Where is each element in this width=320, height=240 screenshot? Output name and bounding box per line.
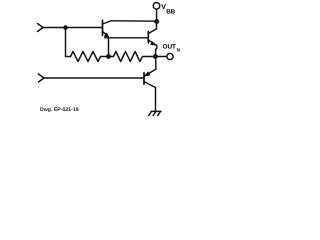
node: input1 / R1 junction (63, 25, 68, 30)
wire: R1/R2 node up to Q1 emitter rail (108, 38, 110, 57)
svg-text:OUT: OUT (163, 44, 176, 51)
wire: input 2 to Q3 base (44, 77, 144, 79)
label VBB (161, 4, 175, 15)
svg-text:N: N (177, 47, 181, 53)
input 1 arrow (top left) (38, 24, 44, 32)
OUT terminal (167, 53, 173, 59)
transistor Q1 (NPN) (103, 20, 112, 37)
transistor Q2 (NPN) (148, 21, 157, 56)
wire: input 1 to Q1 base (43, 27, 102, 29)
resistor R2 (109, 52, 156, 62)
svg-text:BB: BB (166, 8, 175, 15)
svg-text:Dwg. EP-021-19: Dwg. EP-021-19 (40, 107, 79, 113)
label OUT_N (163, 44, 181, 54)
resistor R1 (71, 52, 109, 62)
input 2 arrow (lower left) (39, 74, 45, 82)
transistor Q3 (PNP) (144, 57, 156, 112)
wire: junction down to resistor R1 (66, 28, 71, 57)
node: VBB junction (154, 19, 159, 24)
node: OUT junction (153, 54, 158, 59)
wire: OUT node to terminal (156, 56, 167, 58)
wire: Q1 emitter rail to Q2 base (105, 37, 149, 39)
VBB terminal (153, 3, 160, 22)
wire: Q1 collector to VBB node (111, 20, 157, 22)
ground (149, 111, 161, 115)
node: R1 / R2 / Q1 emitter junction (106, 54, 111, 59)
